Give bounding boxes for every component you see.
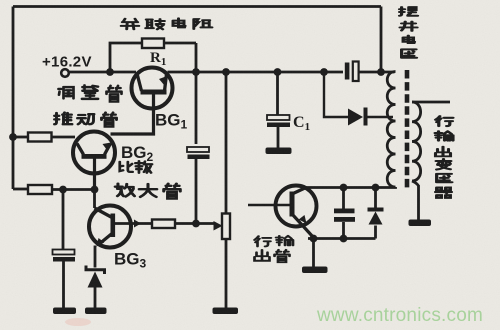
node junction x=94.5 y=189 <box>91 186 99 194</box>
capacitor feedback top plate <box>187 147 209 152</box>
node junction x=63 y=189 <box>59 186 67 194</box>
wire zener to ground <box>94 288 97 309</box>
transistor BG4 line output tube <box>276 186 317 238</box>
wire secondary top lead <box>412 101 450 104</box>
wire emitter ground stem <box>312 239 315 268</box>
wire C1 to ground <box>277 127 280 148</box>
wire retrace cap branch lower <box>342 222 345 239</box>
node junction at rail x=324 <box>320 68 328 76</box>
label 行输出变压器 vertical <box>435 116 453 198</box>
resistor R1 <box>142 39 164 49</box>
transformer secondary winding <box>412 102 421 181</box>
capacitor electrolytic lower-left plus plate <box>53 250 75 255</box>
potentiometer wiper arrow <box>214 221 223 231</box>
wire BG3 base right <box>115 222 152 225</box>
resistor BG3 base series <box>152 220 175 229</box>
wire rectifier branch <box>324 72 348 117</box>
wire BG1 base lead down <box>111 95 154 135</box>
label 比较 <box>120 161 152 173</box>
potentiometer vertical box <box>222 214 230 240</box>
ground bar under pot <box>213 308 239 315</box>
label C1 <box>293 114 310 133</box>
damper diode triangle <box>369 212 383 225</box>
scan grain <box>0 0 1 1</box>
label +16.2V <box>42 54 92 71</box>
ground bar transformer secondary <box>409 220 432 227</box>
wire damper diode branch upper <box>374 188 377 208</box>
diode rectifier triangle <box>348 109 363 126</box>
transistor BG1 adjust tube <box>132 68 173 109</box>
wire BG3 emitter down <box>94 246 97 268</box>
wire R1 right leg <box>164 43 196 72</box>
label 并联电阻 <box>121 18 212 29</box>
zener diode triangle <box>88 272 103 288</box>
capacitor electrolytic lower-left minus plate <box>53 257 75 262</box>
capacitor C1 plus plate <box>267 115 290 120</box>
node junction at rail x=277 <box>274 68 282 76</box>
wire C1 branch down <box>276 72 279 115</box>
capacitor feedback bottom plate <box>188 155 210 160</box>
wire resistor to wiper node <box>175 222 214 225</box>
node junction x=343.5 y=187.5 <box>340 184 348 192</box>
ground bar under BG4 emitter <box>302 267 328 274</box>
transformer primary winding <box>387 72 395 188</box>
node junction at rail x=226 <box>222 68 230 76</box>
wire secondary bottom to ground <box>412 181 419 220</box>
label 放大管 <box>115 184 180 199</box>
wire damper diode branch lower <box>374 226 377 239</box>
node junction left border x=13 y=137 <box>9 133 17 141</box>
wire +16.2V supply rail y=72 <box>69 71 137 74</box>
node junction x=196 y=223.5 <box>192 220 200 228</box>
zener diode stabistor cathode bar <box>86 266 105 275</box>
capacitor coupling left plate <box>345 63 350 80</box>
transformer core dashed <box>405 70 410 191</box>
transistor BG3 comparison amplifier <box>89 206 131 248</box>
ground bar under C1 <box>266 148 292 155</box>
wire pot branch x=226 <box>225 72 228 214</box>
node junction x=343.5 y=238 <box>340 235 348 243</box>
node junction at rail x=110 <box>106 68 114 76</box>
wire lower-left rail y=189 left segment <box>13 188 28 191</box>
label 行输 出管 <box>255 236 294 262</box>
watermark smudge pink <box>65 318 91 326</box>
wire cap to ground <box>62 262 65 309</box>
wire retrace cap branch upper <box>342 188 345 210</box>
wire lower-left rail to BG2 node <box>52 188 95 191</box>
ground bar under zener <box>85 308 107 315</box>
label BG3 <box>114 250 147 271</box>
wire feedback branch lower x=196 <box>195 159 198 224</box>
wire resistor to BG2 collector <box>52 136 76 139</box>
transistor BG2 driver tube <box>73 132 115 174</box>
wire pot to ground <box>225 239 228 308</box>
resistor lower left <box>28 185 52 194</box>
node junction at rail x=196 <box>192 68 200 76</box>
wire rail right of BG1 <box>168 71 344 74</box>
wire BG3 collector up to node <box>93 190 96 209</box>
capacitor retrace bottom plate <box>334 217 355 222</box>
ground bar under cap <box>53 308 76 315</box>
svg-text:www.cntronics.com: www.cntronics.com <box>316 305 483 326</box>
capacitor retrace top plate <box>334 209 355 214</box>
wire BG4 base stub <box>248 204 290 206</box>
wire bottom rail y=238 <box>308 237 376 240</box>
label 调整管 <box>59 85 122 101</box>
wire diode to transformer <box>368 116 394 118</box>
resistor BG2 collector load <box>28 133 52 142</box>
damper diode cathode bar <box>368 208 384 212</box>
diode rectifier cathode bar <box>364 108 368 126</box>
wire R1 left leg <box>110 43 142 72</box>
terminal +16.2V input <box>61 69 69 77</box>
label R1 <box>150 50 166 68</box>
node junction x=313.5 y=238 <box>310 235 318 243</box>
wire BG2 collector left segment <box>13 136 28 139</box>
node junction boost x=381 <box>377 68 385 76</box>
wire left border vertical <box>12 7 15 190</box>
capacitor coupling right plate <box>353 62 359 82</box>
wire BG2 lower lead to node <box>93 159 96 190</box>
wire coupling cap to boost node <box>359 71 395 74</box>
label 提升电压 vertical <box>400 7 418 58</box>
wire primary bottom to BG4 collector rail <box>306 186 396 189</box>
wire top horizontal feedback rail <box>13 5 381 8</box>
wire cap branch down x=63 <box>62 190 65 250</box>
label 推动管 <box>55 113 117 127</box>
capacitor C1 minus plate <box>267 123 290 128</box>
label BG1 <box>155 111 188 132</box>
node junction x=375.5 y=187.5 <box>372 184 380 192</box>
wire boost node up to top rail <box>380 7 383 73</box>
wire feedback branch upper x=196 <box>195 72 198 144</box>
label BG2 <box>121 143 154 164</box>
arrow blob on BG3 base wire <box>134 220 141 228</box>
